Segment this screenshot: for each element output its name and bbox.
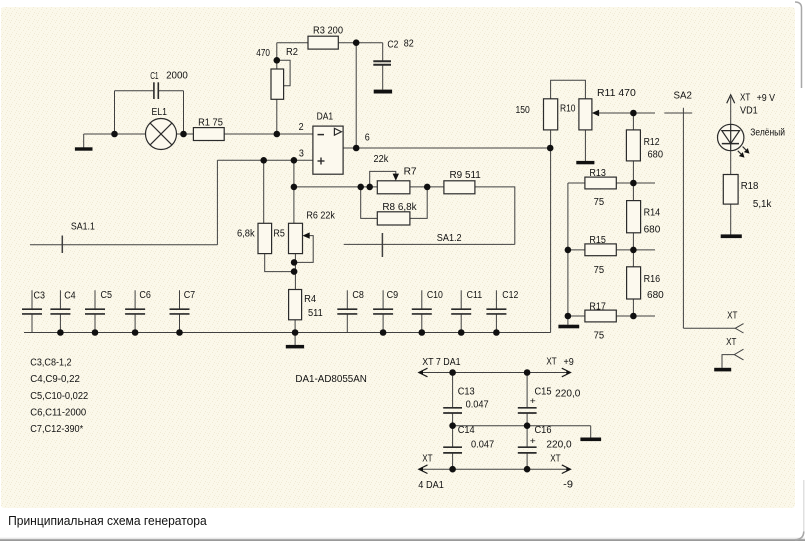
node R10 bottom junction xyxy=(547,145,554,152)
svg-text:+: + xyxy=(530,396,536,406)
wire C1 top right xyxy=(158,90,183,92)
wire R15 left xyxy=(568,249,585,251)
capacitor C15 stems xyxy=(526,373,528,408)
wire R12-R14-R16 rail xyxy=(632,161,634,316)
wire R6 bottom vertical xyxy=(294,254,296,290)
wire R8 left branch xyxy=(361,187,378,219)
svg-text:C4: C4 xyxy=(64,290,76,301)
wire R17 right xyxy=(616,315,633,317)
capacitor C5 stems xyxy=(94,290,96,309)
wire C1 top left xyxy=(115,90,154,92)
svg-text:4 DA1: 4 DA1 xyxy=(418,480,444,491)
svg-text:XT: XT xyxy=(546,357,556,368)
wire R11 wiper to R12 node xyxy=(597,112,655,114)
svg-text:R18: R18 xyxy=(741,181,759,192)
node R7 wiper junction xyxy=(366,184,373,191)
wire C2 bottom stem xyxy=(382,65,384,90)
svg-text:6: 6 xyxy=(365,132,370,143)
capacitor C8 plates xyxy=(337,309,357,314)
node C15 top junction xyxy=(524,369,531,376)
svg-text:C5,C10-0,022: C5,C10-0,022 xyxy=(30,391,88,402)
wire power middle rail xyxy=(453,425,591,427)
svg-text:Зелёный: Зелёный xyxy=(750,128,785,139)
lamp EL1 xyxy=(146,119,177,150)
svg-text:R17: R17 xyxy=(589,301,606,312)
ground (middle rail) xyxy=(580,438,601,442)
node C6 rail junction xyxy=(132,329,139,336)
node R2 bottom junction xyxy=(274,131,281,138)
rail arrowheads (4 DA1 rail) xyxy=(419,465,571,474)
svg-text:SA2: SA2 xyxy=(674,91,693,102)
wire R2 top vertical xyxy=(276,43,278,69)
svg-text:R13: R13 xyxy=(589,168,606,179)
right edge border line xyxy=(795,2,802,88)
node R6 wiper junction xyxy=(291,259,298,266)
svg-text:-9: -9 xyxy=(563,479,573,490)
node R8 right junction xyxy=(424,184,431,191)
svg-text:680: 680 xyxy=(647,290,664,301)
svg-text:XT: XT xyxy=(550,454,560,465)
capacitor C7 plates xyxy=(170,309,190,314)
wire R13 left xyxy=(568,182,585,184)
svg-text:R3 200: R3 200 xyxy=(313,26,343,37)
rail arrowheads (XT 7 DA1 rail) xyxy=(419,368,571,377)
svg-text:75: 75 xyxy=(594,331,605,342)
node R17 rail junction xyxy=(630,313,637,320)
bottom separator line xyxy=(0,537,805,539)
wire R7 wiper loop xyxy=(370,171,396,187)
wire SA2 to XT plug xyxy=(683,327,735,329)
capacitor C4 plates xyxy=(50,309,70,314)
svg-text:3: 3 xyxy=(299,148,304,159)
svg-text:XT: XT xyxy=(726,337,736,348)
op-amp plus input mark xyxy=(318,158,325,165)
svg-text:470: 470 xyxy=(256,48,270,59)
resistor R9 xyxy=(444,181,475,194)
node R6 top of feedback row xyxy=(291,184,298,191)
svg-text:C9: C9 xyxy=(387,290,399,301)
node R2 top junction xyxy=(274,57,281,64)
svg-text:Принципиальная схема генератор: Принципиальная схема генератора xyxy=(8,513,207,528)
svg-text:C13: C13 xyxy=(458,387,475,398)
svg-text:82: 82 xyxy=(404,39,414,50)
svg-text:C1: C1 xyxy=(150,71,159,82)
svg-text:XT: XT xyxy=(422,454,432,465)
potentiometer R6 xyxy=(289,223,303,253)
wire R13 right xyxy=(616,182,633,184)
svg-text:C2: C2 xyxy=(387,39,398,50)
resistor R3 xyxy=(308,36,338,49)
wire R2 bottom vertical xyxy=(276,99,278,134)
svg-text:C12: C12 xyxy=(502,290,518,301)
resistor R15 xyxy=(585,244,616,256)
svg-text:680: 680 xyxy=(648,150,664,161)
bottom-right panel corner xyxy=(795,532,804,540)
svg-text:R8 6,8k: R8 6,8k xyxy=(382,202,417,213)
svg-text:+: + xyxy=(530,436,536,446)
capacitor C3 stems xyxy=(31,290,33,309)
wire ladder left rail xyxy=(567,183,569,325)
capacitor C16 stems xyxy=(526,426,528,447)
connector XT (ground jack) xyxy=(734,349,743,360)
wire feedback vertical node to output xyxy=(355,43,357,148)
wire R15 right xyxy=(616,249,633,251)
svg-text:0.047: 0.047 xyxy=(471,439,494,450)
capacitor C4 stems xyxy=(59,290,61,309)
capacitor C11 plates xyxy=(451,309,471,314)
svg-text:R16: R16 xyxy=(644,274,661,285)
wire C1 left vertical xyxy=(114,91,116,134)
resistor R5 xyxy=(258,223,272,253)
svg-text:R6 22k: R6 22k xyxy=(306,211,335,222)
svg-text:R11 470: R11 470 xyxy=(597,88,636,99)
svg-text:SA1.2: SA1.2 xyxy=(437,233,462,244)
resistor R2 xyxy=(271,69,284,99)
capacitor C9 stems xyxy=(382,290,384,309)
wire R3 right to node xyxy=(338,42,356,44)
wire R17 row stub xyxy=(633,315,655,317)
svg-text:C8: C8 xyxy=(352,290,364,301)
potentiometer R11 xyxy=(579,99,592,130)
capacitor C5 plates xyxy=(85,309,105,314)
resistor R12 xyxy=(626,130,640,161)
wire power top rail xyxy=(421,372,568,374)
svg-text:R4: R4 xyxy=(304,294,316,305)
svg-text:+9: +9 xyxy=(564,357,575,368)
wire node to C2 xyxy=(356,42,383,44)
capacitor C10 plates xyxy=(412,309,432,314)
wire SA2 pole vertical xyxy=(682,108,684,329)
node R15 rail junction xyxy=(630,247,637,254)
node C12 rail junction xyxy=(493,329,500,336)
wire SA1.2 line xyxy=(344,243,515,245)
resistor R13 xyxy=(585,177,616,189)
capacitor C13 plates xyxy=(443,408,462,413)
wire R3 left xyxy=(277,42,308,44)
node C1 right junction xyxy=(180,131,187,138)
svg-text:DA1-AD8055AN: DA1-AD8055AN xyxy=(295,373,367,385)
node C14 bottom junction xyxy=(449,466,456,473)
node R4 rail junction xyxy=(292,329,299,336)
wire R17 left xyxy=(568,315,585,317)
op-amp minus input mark xyxy=(318,134,325,136)
ground (R18) xyxy=(721,234,742,238)
resistor R17 xyxy=(585,310,616,322)
node ladder left R17 junction xyxy=(565,313,572,320)
wire pin3 node to R7 xyxy=(294,186,377,188)
svg-text:VD1: VD1 xyxy=(740,105,758,116)
VD1 light emission arrows xyxy=(738,147,750,158)
resistor R18 xyxy=(723,175,738,205)
svg-text:C11: C11 xyxy=(467,290,483,301)
wire R9 right drop xyxy=(475,187,515,245)
wire R10 bottom to caps rail xyxy=(550,130,552,333)
node pin3/R5 junction xyxy=(260,157,267,164)
wire C1 right vertical xyxy=(183,91,185,134)
svg-text:R10: R10 xyxy=(560,104,576,115)
svg-text:XT 7 DA1: XT 7 DA1 xyxy=(422,357,461,368)
wire caps bottom rail xyxy=(24,332,551,334)
wire R5 bottom xyxy=(265,254,294,272)
wire R18 ground stem xyxy=(730,204,732,234)
node R8 left junction xyxy=(357,184,364,191)
svg-text:220,0: 220,0 xyxy=(555,388,581,399)
svg-text:R9 511: R9 511 xyxy=(450,170,482,181)
wire XT ground jack stem xyxy=(722,355,734,368)
wire C2 top stem xyxy=(382,43,384,61)
node C10 rail junction xyxy=(419,329,426,336)
ground (C2) xyxy=(374,90,392,94)
R7 wiper arrowhead xyxy=(393,174,399,181)
ground (R4) xyxy=(286,345,304,349)
svg-text:C4,C9-0,22: C4,C9-0,22 xyxy=(30,374,80,385)
resistor R16 xyxy=(627,267,641,299)
svg-text:220,0: 220,0 xyxy=(546,439,572,450)
ground (XT jack) xyxy=(714,368,731,372)
svg-text:R12: R12 xyxy=(644,137,660,148)
node pin3/R6 junction xyxy=(291,157,298,164)
wire R15 row stub xyxy=(633,249,655,251)
potentiometer R7 xyxy=(377,181,410,194)
VD1 anode arrow (+9V feed) xyxy=(727,95,735,103)
capacitor C9 plates xyxy=(373,309,393,314)
svg-text:2000: 2000 xyxy=(166,71,188,82)
node DA1 output junction xyxy=(353,145,360,152)
ground (R11) xyxy=(576,161,594,164)
svg-text:C3: C3 xyxy=(34,290,46,301)
wire DA1 pin3 line xyxy=(217,159,313,161)
resistor R8 xyxy=(377,212,410,225)
wire R10 R11 top bridge xyxy=(551,80,586,99)
capacitor C3 plates xyxy=(22,309,42,314)
capacitor C15 plates (polarized) xyxy=(518,408,537,413)
node ladder left R15 junction xyxy=(565,247,572,254)
ground (EL1 input) xyxy=(75,147,93,150)
wire R6 top vertical xyxy=(293,160,295,223)
wire ground stem EL1 xyxy=(83,134,85,148)
capacitor C2 xyxy=(373,61,391,64)
svg-text:75: 75 xyxy=(594,265,605,276)
svg-text:C6: C6 xyxy=(139,290,151,301)
capacitor C12 stems xyxy=(495,290,497,309)
wire SA1.1 line xyxy=(30,244,217,246)
svg-text:C5: C5 xyxy=(101,290,113,301)
svg-text:680: 680 xyxy=(644,225,661,236)
svg-text:R2: R2 xyxy=(286,47,298,58)
node R12 top junction xyxy=(630,110,637,117)
wire VD1 anode arrow shaft xyxy=(730,97,732,125)
node R5/R6 bottom junction xyxy=(291,268,298,275)
svg-text:R14: R14 xyxy=(644,208,661,219)
wire R8 right branch xyxy=(410,187,427,219)
svg-text:C16: C16 xyxy=(535,425,552,436)
svg-text:C10: C10 xyxy=(427,290,443,301)
node C11 rail junction xyxy=(458,329,465,336)
svg-text:R7: R7 xyxy=(404,167,417,178)
node C7 rail junction xyxy=(176,329,183,336)
node C4 rail junction xyxy=(57,329,64,336)
capacitor C1 xyxy=(154,82,158,99)
node C13 top junction xyxy=(449,369,456,376)
svg-text:XT: XT xyxy=(740,92,750,103)
R11 wiper arrowhead xyxy=(592,110,599,116)
LED VD1 xyxy=(718,124,744,150)
wire R13 row stub xyxy=(633,182,655,184)
svg-text:R15: R15 xyxy=(589,235,606,246)
wire R12 top stem xyxy=(632,113,634,130)
capacitor C10 stems xyxy=(421,290,423,309)
capacitor C16 plates (polarized) xyxy=(518,447,537,453)
resistor R4 xyxy=(289,290,302,320)
svg-text:DA1: DA1 xyxy=(317,111,334,122)
svg-text:C14: C14 xyxy=(458,425,475,436)
svg-text:SA1.1: SA1.1 xyxy=(71,222,95,233)
svg-text:C3,C8-1,2: C3,C8-1,2 xyxy=(30,357,72,368)
node C15/C16 junction xyxy=(524,422,531,429)
node R13 rail junction xyxy=(630,180,637,187)
switch SA1.2 contact tick xyxy=(381,233,383,257)
wire lamp to R1 xyxy=(177,133,194,135)
wire DA1 output line xyxy=(343,147,550,149)
svg-text:6,8k: 6,8k xyxy=(237,229,256,240)
svg-text:C15: C15 xyxy=(535,387,552,398)
capacitor C7 stems xyxy=(179,290,181,309)
svg-text:511: 511 xyxy=(308,308,323,319)
svg-text:EL1: EL1 xyxy=(152,107,168,118)
node C5 rail junction xyxy=(92,329,99,336)
wire SA2 throw stub xyxy=(664,112,692,114)
capacitor C6 stems xyxy=(134,290,136,309)
connector XT (SA2 output) xyxy=(735,324,743,333)
svg-text:5,1k: 5,1k xyxy=(753,199,772,210)
wire SA1.1 riser xyxy=(216,160,218,245)
capacitor C13 stems xyxy=(452,373,454,408)
wire power bottom rail xyxy=(421,468,568,470)
wire R6 wiper loop xyxy=(294,236,313,263)
ground (ladder rail) xyxy=(558,325,579,329)
resistor R1 xyxy=(193,128,224,141)
wire R4 bottom ground stem xyxy=(294,320,296,345)
wire main input line y=134 xyxy=(84,133,146,135)
capacitor C11 stems xyxy=(460,290,462,309)
svg-text:150: 150 xyxy=(516,105,531,116)
svg-text:0.047: 0.047 xyxy=(466,399,489,410)
wire R2 wiper bracket xyxy=(277,60,290,85)
switch SA1.1 contact tick xyxy=(61,236,63,254)
op-amp output triangle mark xyxy=(334,128,341,135)
svg-text:22k: 22k xyxy=(374,154,390,165)
svg-text:C7: C7 xyxy=(184,290,196,301)
svg-text:C6,C11-2000: C6,C11-2000 xyxy=(30,408,86,419)
node C1 left junction xyxy=(111,131,118,138)
svg-text:2: 2 xyxy=(299,122,304,133)
op-amp DA1 xyxy=(313,126,343,174)
svg-text:R5: R5 xyxy=(273,229,285,240)
resistor R10 xyxy=(544,99,558,130)
wire R1 to DA1 pin2 xyxy=(224,133,313,135)
node C16 bottom junction xyxy=(524,466,531,473)
wire R11 ground stem xyxy=(584,130,586,161)
wire VD1 to R18 xyxy=(730,151,732,175)
capacitor C8 stems xyxy=(346,290,348,309)
svg-text:XT: XT xyxy=(727,311,737,322)
capacitor C14 stems xyxy=(452,426,454,447)
R6 wiper arrowhead xyxy=(303,232,310,238)
resistor R14 xyxy=(627,201,641,233)
capacitor C12 plates xyxy=(486,309,506,314)
svg-text:75: 75 xyxy=(594,197,605,208)
svg-text:R1 75: R1 75 xyxy=(198,118,223,129)
node C13/C14 junction xyxy=(449,422,456,429)
svg-text:+9 V: +9 V xyxy=(757,93,776,104)
wire R5 top vertical xyxy=(263,160,265,223)
wire R7 to R9 xyxy=(410,186,444,188)
capacitor C6 plates xyxy=(125,309,145,314)
capacitor C14 plates xyxy=(443,447,462,453)
wire middle rail ground stem xyxy=(590,426,592,438)
node C9 rail junction xyxy=(380,329,387,336)
svg-text:C7,C12-390*: C7,C12-390* xyxy=(30,424,83,435)
node R3/C2 junction xyxy=(353,39,360,46)
